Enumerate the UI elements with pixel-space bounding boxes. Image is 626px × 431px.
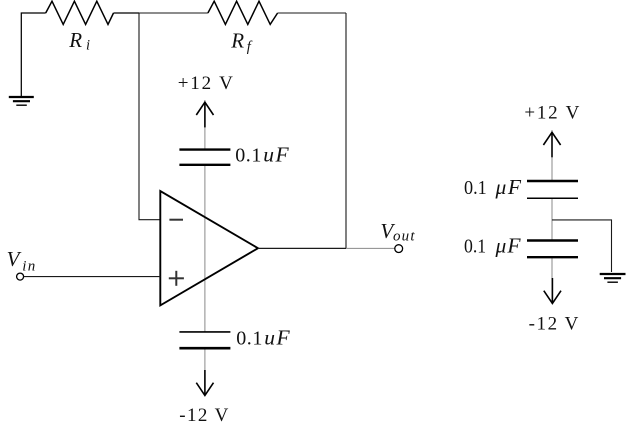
wire junction-to-inverting-input <box>139 13 160 220</box>
terminal Vout <box>395 245 403 253</box>
arrow -12V (left) <box>196 370 213 395</box>
svg-text:0.1: 0.1 <box>236 328 262 350</box>
wire positive supply (right, gray) <box>551 130 553 181</box>
wire junction-to-Rf <box>139 12 208 14</box>
svg-text:V: V <box>7 247 22 271</box>
wire Vin-to-noninverting-input <box>24 276 161 278</box>
svg-text:+12 V: +12 V <box>178 73 233 94</box>
svg-text:uF: uF <box>264 326 290 350</box>
svg-text:0.1: 0.1 <box>464 177 487 199</box>
op-amp U1 <box>160 191 258 305</box>
wire feedback vertical <box>345 13 347 248</box>
svg-text:R: R <box>68 28 82 52</box>
ground (top-left, GND1) <box>9 97 34 105</box>
wire cap-junction-to-ground <box>552 220 612 272</box>
terminal Vin <box>17 273 24 280</box>
svg-text:0.1: 0.1 <box>235 145 261 167</box>
ground (right, GND2) <box>600 274 626 282</box>
svg-text:R: R <box>230 28 244 52</box>
svg-text:i: i <box>86 38 90 54</box>
svg-text:in: in <box>22 258 35 274</box>
wire output-to-terminal <box>346 247 395 249</box>
resistor R_i <box>46 1 114 24</box>
capacitor C3 0.1uF (right top) <box>527 181 578 198</box>
svg-text:μF: μF <box>495 175 522 199</box>
wire positive supply line (gray, through op-amp) <box>204 100 206 150</box>
arrow -12V (right) <box>544 278 561 304</box>
wire output <box>258 247 346 249</box>
svg-text:0.1: 0.1 <box>464 236 486 258</box>
svg-text:-12 V: -12 V <box>179 405 228 426</box>
capacitor C2 0.1uF (bottom) <box>179 332 230 348</box>
wire Ri-to-junction <box>114 12 140 14</box>
svg-text:out: out <box>393 229 415 245</box>
svg-text:+12 V: +12 V <box>524 103 579 124</box>
arrow +12V (right) <box>543 132 560 157</box>
svg-text:uF: uF <box>263 143 289 167</box>
op-amp plus sign <box>169 271 184 286</box>
svg-text:-12 V: -12 V <box>529 314 579 335</box>
capacitor C4 0.1uF (right bottom) <box>527 241 578 258</box>
arrow +12V (left) <box>196 102 213 127</box>
op-amp minus sign <box>169 219 183 221</box>
resistor R_f <box>208 1 278 24</box>
capacitor C1 0.1uF (top) <box>179 150 230 165</box>
wire Rf-to-corner <box>278 12 346 14</box>
wire ground-to-Ri (top-left corner) <box>21 13 45 97</box>
svg-text:μF: μF <box>495 234 522 258</box>
